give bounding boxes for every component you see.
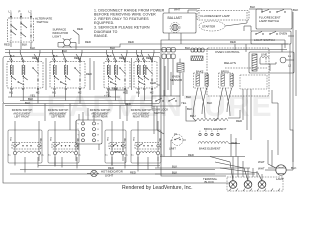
wire L1 right riser (289, 44, 291, 130)
wire harness feeds (82, 112, 84, 122)
wire column risers to elements (44, 104, 46, 122)
svg-text:SWITCH: SWITCH (154, 111, 165, 115)
svg-text:LAMP SWITCH: LAMP SWITCH (259, 19, 279, 23)
connector hatch C (191, 56, 203, 61)
svg-text:OVEN: OVEN (279, 32, 287, 36)
svg-text:OVEN CONTROL: OVEN CONTROL (215, 50, 240, 54)
wire right step (277, 103, 279, 155)
svg-text:RED: RED (77, 27, 83, 31)
oven sensor lead (179, 59, 181, 64)
svg-text:RED: RED (236, 119, 242, 123)
wire RED top bus (58, 44, 288, 47)
hot indicator light lamp (91, 170, 97, 176)
ballast coil (172, 24, 178, 30)
svg-text:HI: HI (174, 132, 177, 136)
svg-text:RED: RED (125, 102, 131, 106)
wire bottom bus 1 (38, 165, 160, 167)
wire left border (3, 103, 230, 183)
svg-text:LAMP: LAMP (276, 177, 284, 181)
svg-text:BAKE ELEMENT: BAKE ELEMENT (199, 147, 221, 151)
wire RED lower (160, 156, 245, 158)
surface element left front (14, 121, 16, 130)
terminal screw L1 (229, 181, 237, 189)
wire broil RED to riser (228, 110, 240, 118)
wire fan to terminal screws (210, 157, 233, 182)
clock connector strip (252, 54, 257, 71)
svg-text:BLK: BLK (172, 165, 177, 169)
svg-text:H1: H1 (52, 91, 56, 95)
wire relay drops curved (193, 88, 198, 118)
wire door lock drops (153, 106, 155, 134)
svg-text:H2: H2 (78, 91, 82, 95)
harness connector block (76, 120, 102, 144)
wire L2 right riser (292, 12, 294, 170)
svg-text:LEFT REAR: LEFT REAR (51, 116, 65, 119)
svg-text:FLUORESCENT LAMP: FLUORESCENT LAMP (201, 14, 230, 18)
wire WHT risers near lamp (267, 140, 269, 164)
wire RED bottom bus (20, 169, 215, 171)
svg-text:RED: RED (230, 40, 236, 44)
wire oven light switch feeds (243, 26, 245, 31)
svg-text:RED: RED (128, 40, 134, 44)
svg-text:H1: H1 (9, 91, 13, 95)
svg-text:RELAYS: RELAYS (224, 61, 236, 65)
infinite switch left rear (50, 62, 85, 89)
svg-text:BLOCK: BLOCK (205, 180, 215, 184)
svg-text:L2: L2 (29, 10, 33, 14)
wire oven light switch drop (281, 44, 283, 52)
wire connector drops (163, 59, 165, 97)
svg-text:BLK: BLK (187, 107, 193, 111)
wire BLK top bus (5, 49, 287, 51)
wire dashed mid oven control (225, 67, 268, 69)
svg-text:RED: RED (85, 40, 91, 44)
svg-text:YEL: YEL (181, 101, 187, 105)
wire N right riser (295, 30, 297, 96)
svg-text:RIGHT REAR: RIGHT REAR (93, 116, 108, 119)
wire oven sensor drop (182, 73, 184, 96)
terminal screw L2 (258, 181, 266, 189)
wire BLK mid bus (20, 100, 152, 102)
clock box (249, 52, 294, 73)
connector strip C (191, 48, 194, 52)
svg-text:LIMIT: LIMIT (169, 147, 176, 151)
surface element left rear (54, 121, 56, 130)
clock coil (260, 57, 269, 59)
wire bottom drops (24, 157, 26, 173)
broil element terminals (199, 133, 201, 135)
limit switch (172, 135, 183, 146)
infinite switch left front (7, 62, 43, 89)
svg-text:SENSOR: SENSOR (170, 78, 182, 82)
svg-text:WHT: WHT (258, 160, 265, 164)
wire BLK bus 2 (5, 52, 160, 54)
wire RED mid bus (107, 90, 127, 94)
svg-text:BLK: BLK (250, 5, 255, 9)
svg-text:BLK: BLK (185, 46, 190, 50)
alternate switch body (8, 18, 34, 42)
svg-text:BLK: BLK (186, 95, 191, 99)
wire lamp leads (265, 169, 276, 171)
oven control box (207, 48, 269, 96)
surface element right front (137, 121, 139, 130)
connector strip B (162, 54, 166, 59)
oven lamp (276, 165, 286, 175)
wire BLK to broil (186, 106, 196, 121)
svg-text:RIGHT FRONT: RIGHT FRONT (133, 116, 150, 119)
wire RED gap pair (89, 58, 91, 90)
svg-text:H2: H2 (123, 91, 127, 95)
connector strip A (162, 48, 166, 53)
wire BLK lower 2 (155, 173, 255, 175)
svg-text:P: P (19, 10, 21, 14)
infinite switch right rear (104, 62, 130, 89)
wire BLK lower 1 (155, 167, 250, 169)
broil element (196, 118, 228, 121)
wire mid RED drop (119, 106, 121, 120)
svg-text:RED: RED (86, 72, 92, 76)
svg-text:BLK: BLK (207, 101, 212, 105)
wire right box edge (161, 40, 285, 176)
svg-text:BLK: BLK (25, 101, 31, 105)
relay aux dashed (240, 75, 267, 89)
wire diagonal drops to switch terminals (10, 53, 12, 60)
door lock switch contacts (152, 96, 180, 106)
svg-text:WHT: WHT (174, 8, 181, 12)
wire gap verticals (45, 58, 47, 90)
oven light switch box (251, 31, 291, 44)
lamp surface indicator (64, 39, 71, 46)
terminal screw N (244, 181, 252, 189)
clock motor (280, 57, 286, 63)
svg-text:STARTER: STARTER (202, 24, 215, 28)
svg-text:RED: RED (112, 87, 118, 91)
svg-text:Rendered by LeadVenture, Inc.: Rendered by LeadVenture, Inc. (122, 185, 193, 191)
svg-text:H1: H1 (136, 91, 140, 95)
svg-text:SWITCH: SWITCH (37, 20, 49, 24)
ballast box (163, 13, 196, 33)
bake element (198, 141, 229, 143)
oven sensor body (177, 63, 184, 72)
svg-text:RED: RED (150, 81, 156, 85)
wire oven control bottom drops (242, 89, 244, 120)
wire RED bottom bus 2 (10, 173, 215, 175)
svg-text:H2: H2 (150, 91, 154, 95)
left enclosure box (3, 57, 160, 104)
svg-text:BLK: BLK (110, 46, 115, 50)
svg-text:RED: RED (188, 153, 194, 157)
infinite switch right front (134, 62, 157, 89)
fluorescent lamp body (197, 11, 249, 21)
wire oven control to door lock (164, 66, 166, 96)
starter (199, 21, 225, 31)
wire risers to terminal block (232, 157, 234, 182)
svg-text:BLK: BLK (291, 166, 297, 170)
svg-text:BALLAST: BALLAST (168, 16, 182, 20)
wire to bake element (171, 139, 172, 141)
svg-text:WHT: WHT (258, 167, 265, 171)
svg-text:BLU: BLU (190, 114, 196, 118)
surface element right rear (111, 121, 113, 130)
svg-text:BLK: BLK (22, 43, 27, 47)
svg-text:H2: H2 (36, 91, 40, 95)
svg-text:LEFT FRONT: LEFT FRONT (15, 116, 30, 119)
svg-text:RANGE.: RANGE. (94, 34, 108, 38)
terminal block body (227, 177, 283, 191)
svg-text:BLK: BLK (30, 46, 35, 50)
svg-text:L1: L1 (9, 10, 13, 14)
svg-text:BLK: BLK (293, 8, 298, 12)
wire to surface indicator light (70, 42, 76, 44)
svg-text:BROIL ELEMENT: BROIL ELEMENT (204, 127, 227, 131)
svg-text:RED: RED (4, 43, 10, 47)
svg-text:LINE: LINE (261, 53, 267, 57)
svg-text:BLK: BLK (172, 171, 177, 175)
wire clock feeds (260, 63, 276, 65)
svg-text:RED: RED (130, 171, 136, 175)
svg-text:LIGHT: LIGHT (53, 35, 62, 39)
svg-text:LIGHT: LIGHT (105, 173, 114, 177)
svg-text:+YEL: +YEL (104, 94, 112, 98)
fluorescent lamp switch box (256, 9, 292, 29)
wire YEL mid bus (8, 96, 120, 98)
